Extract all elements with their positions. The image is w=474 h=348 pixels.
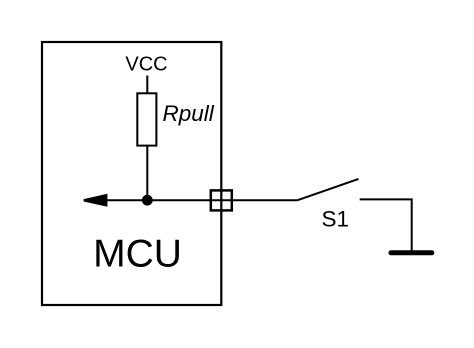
svg-text:Rpull: Rpull	[163, 101, 215, 126]
node junction dot	[142, 195, 153, 206]
switch S1 lever	[298, 179, 359, 200]
svg-text:VCC: VCC	[125, 54, 167, 76]
arrow into MCU	[84, 194, 108, 207]
svg-text:MCU: MCU	[93, 233, 182, 276]
wire horizontal arrow to switch	[107, 199, 298, 201]
svg-text:S1: S1	[322, 207, 350, 232]
wire resistor to node	[146, 146, 148, 200]
wire VCC to resistor	[146, 76, 148, 95]
MCU box U1	[42, 42, 221, 305]
resistor Rpull	[137, 93, 156, 145]
wire switch to ground	[360, 199, 412, 251]
ground	[391, 250, 432, 255]
pin square on MCU edge	[211, 190, 232, 210]
